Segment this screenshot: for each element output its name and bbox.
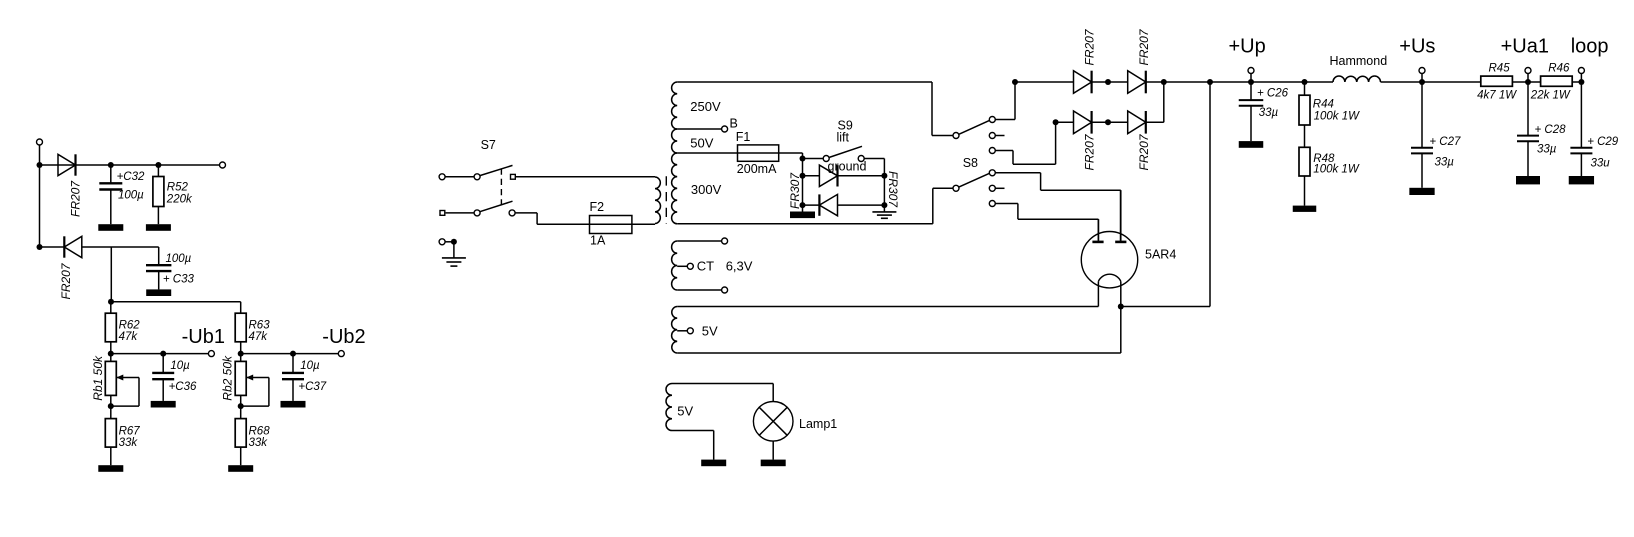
svg-text:+Up: +Up <box>1229 35 1266 57</box>
svg-text:R68: R68 <box>249 425 271 437</box>
svg-text:loop: loop <box>1571 36 1609 58</box>
svg-text:Hammond: Hammond <box>1330 54 1388 68</box>
svg-text:+C36: +C36 <box>169 381 197 393</box>
svg-text:+ C27: + C27 <box>1429 136 1461 148</box>
svg-text:FR307: FR307 <box>886 171 900 208</box>
svg-text:220k: 220k <box>166 193 193 205</box>
svg-text:+ C28: + C28 <box>1535 124 1567 136</box>
svg-text:33µ: 33µ <box>1537 143 1557 155</box>
svg-text:FR207: FR207 <box>1137 28 1151 65</box>
svg-text:B: B <box>730 117 738 131</box>
svg-text:+Us: +Us <box>1399 36 1435 58</box>
svg-text:22k 1W: 22k 1W <box>1530 90 1571 102</box>
svg-text:33u: 33u <box>1591 158 1611 170</box>
svg-text:10µ: 10µ <box>170 360 190 372</box>
svg-text:10µ: 10µ <box>300 360 320 372</box>
svg-text:+C32: +C32 <box>117 171 145 183</box>
svg-text:5AR4: 5AR4 <box>1145 248 1176 262</box>
svg-text:S7: S7 <box>481 138 496 152</box>
svg-text:R46: R46 <box>1548 63 1570 75</box>
svg-text:100k 1W: 100k 1W <box>1314 111 1361 123</box>
svg-text:lift: lift <box>837 131 850 145</box>
svg-text:Rb1 50k: Rb1 50k <box>91 355 105 401</box>
svg-text:FR207: FR207 <box>1137 133 1151 170</box>
svg-text:R63: R63 <box>249 319 271 331</box>
svg-text:R45: R45 <box>1489 63 1511 75</box>
svg-text:100µ: 100µ <box>118 189 144 201</box>
svg-text:1A: 1A <box>590 234 606 248</box>
svg-text:FR207: FR207 <box>59 262 73 299</box>
svg-text:33µ: 33µ <box>1259 107 1279 119</box>
svg-text:100k 1W: 100k 1W <box>1313 164 1360 176</box>
svg-text:33k: 33k <box>249 437 269 449</box>
svg-text:ground: ground <box>828 160 867 174</box>
svg-text:100µ: 100µ <box>166 253 192 265</box>
svg-text:5V: 5V <box>702 323 718 338</box>
svg-text:FR207: FR207 <box>69 180 83 217</box>
svg-text:F2: F2 <box>590 200 605 214</box>
svg-text:+ C33: + C33 <box>163 274 195 286</box>
svg-text:Lamp1: Lamp1 <box>799 417 837 431</box>
svg-text:+ C29: + C29 <box>1587 136 1619 148</box>
svg-text:+C37: +C37 <box>298 381 326 393</box>
svg-text:33k: 33k <box>119 437 139 449</box>
svg-text:+ C26: + C26 <box>1257 88 1289 100</box>
svg-text:-Ub2: -Ub2 <box>322 326 365 348</box>
svg-text:FR207: FR207 <box>1083 28 1097 65</box>
svg-text:250V: 250V <box>690 99 721 114</box>
svg-text:5V: 5V <box>677 403 693 418</box>
svg-text:47k: 47k <box>119 331 139 343</box>
svg-text:FR307: FR307 <box>788 172 802 209</box>
svg-text:33µ: 33µ <box>1435 156 1455 168</box>
svg-text:F1: F1 <box>736 130 751 144</box>
svg-text:S8: S8 <box>963 156 978 170</box>
svg-text:47k: 47k <box>249 331 269 343</box>
svg-text:+Ua1: +Ua1 <box>1501 36 1549 58</box>
svg-text:R62: R62 <box>119 319 141 331</box>
svg-text:R67: R67 <box>119 425 141 437</box>
svg-text:R52: R52 <box>167 182 189 194</box>
svg-text:300V: 300V <box>691 182 722 197</box>
svg-text:FR207: FR207 <box>1083 133 1097 170</box>
svg-text:200mA: 200mA <box>737 162 777 176</box>
svg-text:Rb2 50k: Rb2 50k <box>221 355 235 401</box>
svg-text:4k7 1W: 4k7 1W <box>1477 90 1517 102</box>
svg-text:-Ub1: -Ub1 <box>182 326 225 348</box>
svg-text:CT: CT <box>697 259 714 274</box>
svg-text:50V: 50V <box>690 136 713 151</box>
svg-text:R44: R44 <box>1313 99 1334 111</box>
svg-text:6,3V: 6,3V <box>726 259 753 274</box>
